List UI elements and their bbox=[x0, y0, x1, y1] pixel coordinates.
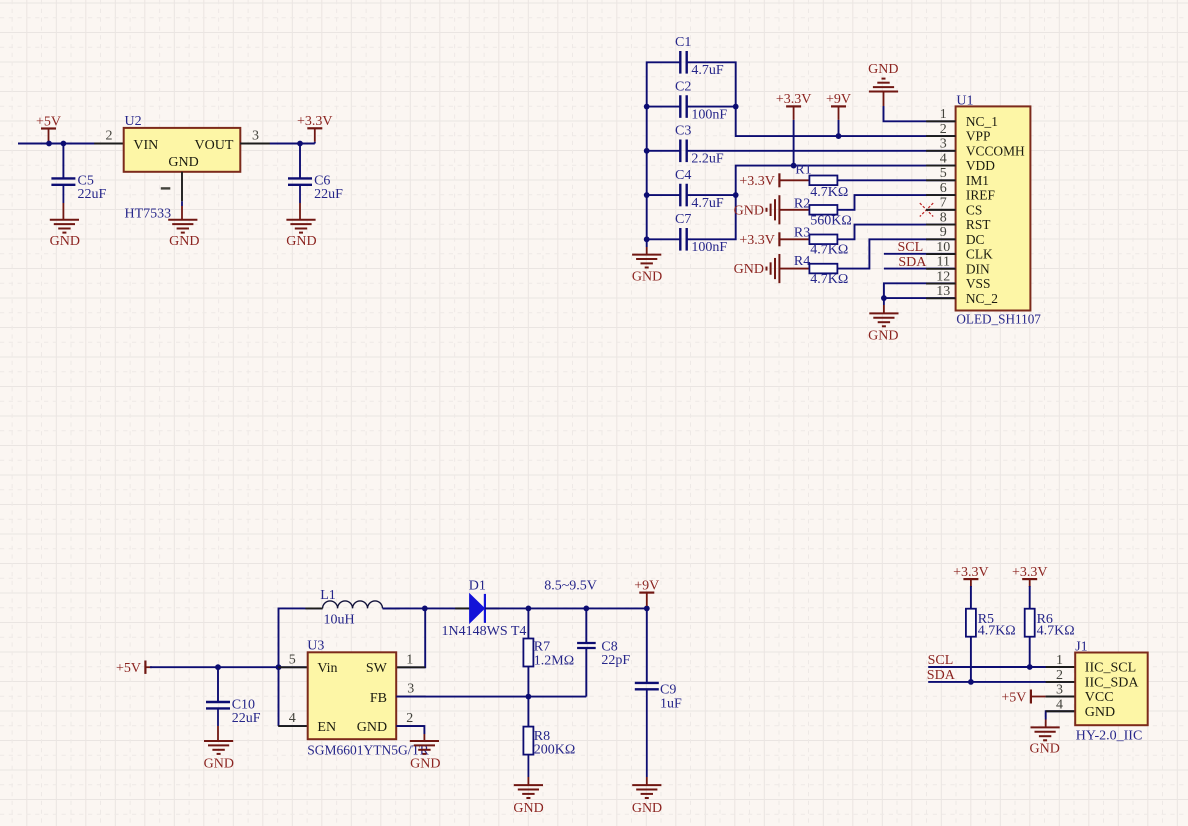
svg-text:GND: GND bbox=[286, 234, 316, 249]
svg-text:200KΩ: 200KΩ bbox=[534, 743, 576, 758]
svg-text:IM1: IM1 bbox=[966, 173, 989, 188]
resistor R6 4.7K bbox=[1025, 609, 1035, 637]
svg-text:DC: DC bbox=[966, 232, 985, 247]
resistor R5 4.7K bbox=[966, 609, 976, 637]
svg-text:4.7uF: 4.7uF bbox=[691, 196, 724, 211]
svg-text:5: 5 bbox=[289, 652, 296, 667]
wire SCL to J1 IIC_SCL (pin 1) bbox=[928, 666, 1075, 668]
U1 pin 1 NC_1 bbox=[926, 120, 956, 122]
wire U3 SW (pin 1) riser bbox=[396, 608, 425, 667]
ground J1 bbox=[1031, 727, 1060, 740]
svg-text:12: 12 bbox=[936, 269, 950, 284]
inductor L1 10uH bbox=[323, 601, 383, 608]
svg-text:+3.3V: +3.3V bbox=[953, 565, 989, 580]
svg-text:GND: GND bbox=[868, 62, 898, 77]
pin 1 number (rotated) bbox=[161, 187, 171, 189]
svg-text:R2: R2 bbox=[794, 196, 810, 211]
U3 pin 4 stub bbox=[278, 725, 308, 727]
wire R4 to U1 DC (pin 9) bbox=[837, 239, 955, 268]
svg-text:GND: GND bbox=[513, 801, 543, 816]
ground C5 bbox=[50, 220, 79, 233]
diode D1 anode lead bbox=[455, 607, 469, 609]
svg-text:2: 2 bbox=[1056, 668, 1063, 683]
capacitor C9 1uF bbox=[635, 682, 659, 684]
wire R5 lower lead to SDA bbox=[970, 637, 972, 682]
U2 pin 2 stub bbox=[94, 143, 124, 145]
svg-text:1: 1 bbox=[406, 652, 413, 667]
wire U1 VSS (pin 12) to ground bbox=[884, 283, 956, 298]
junction VSS/NC_2 bbox=[881, 295, 887, 301]
svg-text:4.7uF: 4.7uF bbox=[691, 63, 724, 78]
U1 pin 12 VSS bbox=[926, 283, 956, 285]
svg-text:1uF: 1uF bbox=[660, 696, 682, 711]
wire R6 lower lead to SCL bbox=[1029, 637, 1031, 667]
wire C4/C7 right bus to U1 VDD (pin 4) bbox=[687, 166, 956, 240]
svg-text:22pF: 22pF bbox=[601, 653, 630, 668]
wire D1 cathode to output node bbox=[485, 607, 647, 609]
svg-text:GND: GND bbox=[734, 262, 764, 277]
svg-text:C5: C5 bbox=[78, 173, 94, 188]
svg-text:R1: R1 bbox=[795, 163, 811, 178]
svg-text:1: 1 bbox=[1056, 653, 1063, 668]
capacitor C10 22uF bbox=[206, 701, 230, 703]
capacitor C1 4.7uF bbox=[679, 51, 681, 74]
J1 pin 3 stub bbox=[1046, 696, 1076, 698]
svg-text:IREF: IREF bbox=[966, 188, 995, 203]
svg-text:GND: GND bbox=[357, 720, 387, 735]
U1 pin 6 IREF bbox=[926, 194, 956, 196]
svg-text:VDD: VDD bbox=[966, 158, 995, 173]
svg-text:3: 3 bbox=[940, 137, 947, 152]
svg-text:SW: SW bbox=[366, 661, 388, 676]
svg-text:11: 11 bbox=[937, 255, 950, 270]
svg-text:J1: J1 bbox=[1075, 639, 1087, 654]
svg-text:C3: C3 bbox=[675, 124, 691, 139]
svg-text:NC_1: NC_1 bbox=[966, 114, 998, 129]
svg-text:GND: GND bbox=[632, 801, 662, 816]
svg-text:GND: GND bbox=[632, 269, 662, 284]
svg-text:EN: EN bbox=[317, 720, 336, 735]
wire R5 upper lead bbox=[970, 586, 972, 609]
junction R6 on SCL bbox=[1027, 664, 1033, 670]
junction C5 tap bbox=[61, 141, 67, 147]
J1 pin 4 stub bbox=[1046, 710, 1076, 712]
U1 pin 8 RST bbox=[926, 224, 956, 226]
svg-text:22uF: 22uF bbox=[78, 187, 107, 202]
wire C8 riser bbox=[585, 648, 587, 697]
capacitor C3 2.2uF bbox=[679, 140, 681, 163]
svg-text:4.7KΩ: 4.7KΩ bbox=[810, 243, 848, 258]
U3 pin 5 stub bbox=[278, 666, 308, 668]
svg-text:IIC_SDA: IIC_SDA bbox=[1085, 675, 1140, 690]
J1 pin 1 stub bbox=[1046, 666, 1076, 668]
U3 pin 1 stub bbox=[396, 666, 425, 668]
svg-text:4: 4 bbox=[289, 711, 296, 726]
J1 pin 2 stub bbox=[1046, 681, 1076, 683]
svg-text:+3.3V: +3.3V bbox=[297, 114, 333, 129]
U2 pin 3 stub bbox=[240, 143, 269, 145]
svg-text:GND: GND bbox=[868, 329, 898, 344]
svg-text:VPP: VPP bbox=[966, 129, 991, 144]
U1 pin 7 CS bbox=[926, 209, 956, 211]
svg-text:VSS: VSS bbox=[966, 276, 991, 291]
wire C10 upper lead bbox=[217, 667, 219, 701]
svg-text:U3: U3 bbox=[307, 639, 324, 654]
svg-text:C7: C7 bbox=[675, 212, 691, 227]
ground at U1 VSS bbox=[883, 298, 885, 305]
svg-text:VOUT: VOUT bbox=[195, 138, 234, 153]
wire U2 GND pin to ground bbox=[181, 172, 183, 202]
U3 pin 3 stub bbox=[396, 696, 426, 698]
svg-text:DIN: DIN bbox=[966, 261, 990, 276]
capacitor C4 4.7uF bbox=[679, 184, 681, 207]
wire VCC pin 3 bbox=[1046, 696, 1076, 698]
wire ground to U1 NC_1 (pin 1) bbox=[884, 106, 956, 121]
svg-text:VIN: VIN bbox=[133, 138, 158, 153]
svg-text:Vin: Vin bbox=[317, 661, 337, 676]
diode D1 cathode lead bbox=[485, 607, 500, 609]
svg-text:C6: C6 bbox=[314, 173, 330, 188]
svg-text:U2: U2 bbox=[125, 114, 142, 129]
diode D1 1N4148WS bbox=[470, 594, 485, 623]
svg-text:+5V: +5V bbox=[1001, 690, 1026, 705]
svg-text:2: 2 bbox=[940, 122, 947, 137]
svg-text:NC_2: NC_2 bbox=[966, 291, 998, 306]
junction +9V on VPP wire bbox=[836, 133, 842, 139]
wire FB feedback bbox=[396, 696, 586, 698]
svg-text:+3.3V: +3.3V bbox=[739, 233, 775, 248]
junction left bus C3 bbox=[644, 148, 650, 154]
wire C4 left lead bbox=[647, 194, 681, 196]
svg-text:4.7KΩ: 4.7KΩ bbox=[978, 624, 1016, 639]
wire C6 upper lead bbox=[299, 144, 301, 178]
svg-text:8: 8 bbox=[940, 210, 947, 225]
resistor R4 4.7K bbox=[809, 264, 837, 274]
svg-text:22uF: 22uF bbox=[314, 187, 343, 202]
svg-text:6: 6 bbox=[940, 181, 947, 196]
resistor R2 560K bbox=[809, 205, 837, 215]
svg-text:+9V: +9V bbox=[634, 578, 659, 593]
wire C5 upper lead bbox=[62, 144, 64, 178]
svg-text:10uH: 10uH bbox=[324, 612, 355, 627]
IC U2 HT7533 body bbox=[124, 128, 241, 172]
U1 pin 4 VDD bbox=[926, 165, 956, 167]
svg-text:1.2MΩ: 1.2MΩ bbox=[534, 653, 574, 668]
svg-text:GND: GND bbox=[1030, 742, 1060, 757]
svg-text:+9V: +9V bbox=[826, 92, 851, 107]
wire C1/C2 right bus to U1 VPP (pin 2) bbox=[687, 62, 956, 136]
capacitor C8 22pF bbox=[577, 642, 596, 644]
junction C6 tap bbox=[297, 141, 303, 147]
svg-text:C9: C9 bbox=[660, 682, 676, 697]
capacitor C2 100nF bbox=[679, 95, 681, 118]
svg-text:8.5~9.5V: 8.5~9.5V bbox=[544, 579, 597, 594]
wire R1 to U1 IM1 (pin 5) bbox=[837, 179, 955, 181]
svg-text:+5V: +5V bbox=[116, 661, 141, 676]
wire R7 upper lead bbox=[527, 608, 529, 638]
junction boost input branch bbox=[276, 664, 282, 670]
wire C3 to U1 VCCOMH (pin 3) bbox=[687, 150, 956, 152]
svg-text:CS: CS bbox=[966, 202, 982, 217]
svg-text:22uF: 22uF bbox=[232, 711, 261, 726]
junction C8 tap bbox=[583, 606, 589, 612]
IC J1 HY-2.0_IIC body bbox=[1075, 653, 1148, 726]
svg-text:RST: RST bbox=[966, 217, 991, 232]
svg-text:1N4148WS T4: 1N4148WS T4 bbox=[442, 624, 527, 639]
wire L1 to D1 anode bbox=[383, 607, 470, 609]
U1 pin 2 VPP bbox=[926, 135, 956, 137]
svg-text:GND: GND bbox=[50, 234, 80, 249]
svg-text:100nF: 100nF bbox=[691, 240, 727, 255]
svg-text:4: 4 bbox=[1056, 697, 1063, 712]
wire J1 GND (pin 4) to ground bbox=[1046, 711, 1076, 719]
svg-text:4.7KΩ: 4.7KΩ bbox=[810, 185, 848, 200]
resistor R8 200K bbox=[523, 727, 533, 755]
junction +3.3V on VDD wire bbox=[791, 163, 797, 169]
wire EN pin 4 bbox=[279, 725, 308, 727]
wire R3 to U1 RST (pin 8) bbox=[837, 225, 955, 240]
junction left bus C4 bbox=[644, 192, 650, 198]
svg-text:GND: GND bbox=[1085, 705, 1115, 720]
wire U3 GND (pin 2) to ground bbox=[396, 726, 424, 734]
wire R8 lower lead bbox=[527, 755, 529, 777]
wire C3 left lead bbox=[647, 150, 681, 152]
junction R5 on SDA bbox=[968, 679, 974, 685]
wire C8 upper lead bbox=[585, 608, 587, 643]
capacitor C5 22uF bbox=[51, 177, 75, 179]
U1 pin 9 DC bbox=[926, 238, 956, 240]
junction right bus C2 bbox=[733, 104, 739, 110]
wire C10 lower lead bbox=[217, 709, 219, 726]
svg-text:D1: D1 bbox=[469, 579, 486, 594]
IC U1 OLED_SH1107 body bbox=[956, 106, 1031, 310]
resistor R3 4.7K bbox=[809, 235, 837, 245]
svg-text:GND: GND bbox=[410, 757, 440, 772]
U1 pin 11 DIN bbox=[926, 268, 956, 270]
wire branch up to L1 and down to EN (pin 4) bbox=[279, 608, 323, 726]
svg-text:U1: U1 bbox=[956, 94, 973, 109]
capacitor C7 100nF bbox=[679, 228, 681, 251]
wire SDA to J1 IIC_SDA (pin 2) bbox=[928, 681, 1075, 683]
svg-text:2: 2 bbox=[106, 129, 113, 144]
junction C10 tap bbox=[215, 664, 221, 670]
wire C5 lower lead bbox=[62, 185, 64, 203]
svg-text:OLED_SH1107: OLED_SH1107 bbox=[956, 312, 1041, 327]
svg-text:FB: FB bbox=[370, 691, 387, 706]
resistor R7 1.2M bbox=[523, 639, 533, 667]
svg-text:GND: GND bbox=[168, 155, 198, 170]
svg-text:C2: C2 bbox=[675, 79, 691, 94]
U3 pin 2 stub bbox=[396, 725, 424, 727]
svg-text:CLK: CLK bbox=[966, 247, 993, 262]
wire R6 upper lead bbox=[1029, 586, 1031, 609]
svg-text:GND: GND bbox=[734, 203, 764, 218]
wire C9 upper lead bbox=[646, 608, 648, 682]
svg-text:R4: R4 bbox=[794, 254, 810, 269]
svg-text:9: 9 bbox=[940, 225, 947, 240]
wire U2 VOUT (pin 3) to +3.3V bbox=[240, 143, 314, 145]
svg-text:VCC: VCC bbox=[1085, 690, 1114, 705]
svg-text:SDA: SDA bbox=[927, 668, 956, 683]
svg-text:+5V: +5V bbox=[36, 114, 61, 129]
junction left bus C7 bbox=[644, 236, 650, 242]
svg-text:4.7KΩ: 4.7KΩ bbox=[1037, 624, 1075, 639]
wire SCL to U1 CLK (pin 10) bbox=[884, 253, 956, 255]
svg-text:GND: GND bbox=[204, 757, 234, 772]
capacitor C6 22uF bbox=[288, 177, 312, 179]
junction right bus C4 bbox=[733, 192, 739, 198]
wire C4 right lead bbox=[687, 194, 736, 196]
junction +9V output node bbox=[644, 606, 650, 612]
svg-text:GND: GND bbox=[169, 234, 199, 249]
wire C9 lower lead bbox=[646, 690, 648, 777]
svg-text:HY-2.0_IIC: HY-2.0_IIC bbox=[1076, 728, 1143, 743]
ground C10 bbox=[204, 741, 233, 754]
svg-text:100nF: 100nF bbox=[691, 107, 727, 122]
svg-text:2.2uF: 2.2uF bbox=[691, 152, 724, 167]
svg-text:560KΩ: 560KΩ bbox=[810, 213, 852, 228]
junction left bus C2 bbox=[644, 104, 650, 110]
svg-text:1: 1 bbox=[940, 107, 947, 122]
svg-text:SGM6601YTN5G/TR: SGM6601YTN5G/TR bbox=[307, 743, 429, 758]
svg-text:L1: L1 bbox=[320, 588, 336, 603]
ground R8 bbox=[514, 785, 543, 798]
U1 pin 10 CLK bbox=[926, 253, 956, 255]
svg-text:SCL: SCL bbox=[928, 653, 954, 668]
U1 pin 5 IM1 bbox=[926, 179, 956, 181]
wire +5V input to U2 VIN (pin 2) bbox=[18, 143, 124, 145]
svg-text:C1: C1 bbox=[675, 35, 691, 50]
ground capacitor bank bbox=[646, 247, 648, 255]
junction FB node bbox=[526, 694, 532, 700]
svg-text:5: 5 bbox=[940, 166, 947, 181]
svg-text:3: 3 bbox=[252, 129, 259, 144]
wire C6 lower lead bbox=[299, 185, 301, 203]
ground C9 bbox=[632, 785, 661, 798]
wire C7 left lead bbox=[647, 238, 681, 240]
svg-text:3: 3 bbox=[407, 682, 414, 697]
svg-text:+3.3V: +3.3V bbox=[1012, 565, 1048, 580]
wire capacitor bank left bus bbox=[647, 62, 681, 247]
wire C2 right lead bbox=[687, 106, 736, 108]
svg-text:4.7KΩ: 4.7KΩ bbox=[810, 272, 848, 287]
wire +5V rail to U3 Vin (pin 5) bbox=[150, 666, 308, 668]
svg-text:4: 4 bbox=[940, 151, 947, 166]
U1 pin 3 VCCOMH bbox=[926, 150, 956, 152]
wire C2 left lead bbox=[647, 106, 681, 108]
wire SDA to U1 DIN (pin 11) bbox=[884, 268, 956, 270]
ground U3 bbox=[410, 741, 439, 754]
svg-text:IIC_SCL: IIC_SCL bbox=[1085, 661, 1136, 676]
svg-text:C4: C4 bbox=[675, 168, 691, 183]
svg-text:+3.3V: +3.3V bbox=[776, 92, 812, 107]
ground U2 bbox=[168, 220, 197, 233]
svg-text:R3: R3 bbox=[794, 225, 810, 240]
svg-text:2: 2 bbox=[406, 711, 413, 726]
junction SW node bbox=[422, 606, 428, 612]
svg-text:13: 13 bbox=[936, 284, 950, 299]
svg-text:7: 7 bbox=[940, 196, 947, 211]
wire R2 to U1 IREF (pin 6) bbox=[837, 195, 955, 210]
svg-text:+3.3V: +3.3V bbox=[739, 174, 775, 189]
no-ERC marker on CS (pin 7) bbox=[920, 203, 933, 216]
svg-text:VCCOMH: VCCOMH bbox=[966, 143, 1025, 158]
wire U1 CS pin 7 stub bbox=[926, 209, 956, 211]
junction R7 tap bbox=[526, 606, 532, 612]
wire R7 lower lead bbox=[527, 667, 529, 697]
svg-text:3: 3 bbox=[1056, 683, 1063, 698]
svg-text:10: 10 bbox=[936, 240, 950, 255]
wire U1 NC_2 (pin 13) bbox=[884, 297, 956, 299]
junction +5V stem bbox=[46, 141, 52, 147]
wire R8 upper lead bbox=[527, 697, 529, 727]
U1 pin 13 NC_2 bbox=[926, 297, 956, 299]
IC U3 SGM6601 body bbox=[308, 652, 397, 739]
svg-text:HT7533: HT7533 bbox=[125, 206, 172, 221]
resistor R1 4.7K bbox=[809, 176, 837, 186]
ground C6 bbox=[286, 220, 315, 233]
